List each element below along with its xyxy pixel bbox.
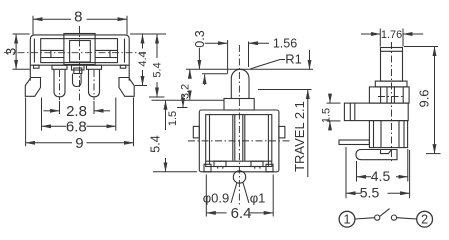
dim 6.4 ext right [272,175,274,217]
right pin base [87,65,102,69]
foot notch [381,150,392,154]
R1 leader [251,60,286,69]
svg-text:5.4: 5.4 [152,62,164,77]
body outline [30,35,129,81]
dim 3 line [15,34,17,69]
right pin centerline [93,70,95,100]
svg-text:3: 3 [3,47,19,55]
svg-text:1: 1 [344,213,351,227]
plunger shaft [381,48,403,82]
dim 9 ext left [25,98,27,147]
dim 5.5 ext right [409,150,411,198]
dim 2.8 ext right [93,101,95,114]
cover tick right [109,50,111,57]
wire left [355,218,375,219]
dim 3.2 line top [189,69,191,74]
svg-text:5.5: 5.5 [360,185,380,201]
base plate [339,140,369,145]
right nub [279,126,285,137]
svg-text:6.4: 6.4 [231,205,252,222]
shaft right wall [243,115,245,161]
horizontal centerline [4,52,148,54]
left pin base [52,65,67,69]
left end step [34,65,40,68]
dim 8 line [33,18,127,20]
body bottom line [30,64,129,66]
vertical centerline [238,45,240,205]
plunger [231,69,249,98]
travel arrow top [309,50,311,69]
horizontal centerline [188,140,292,142]
svg-text:R1: R1 [285,51,302,66]
dim 1.5 right arrow top [329,94,331,103]
dim 5.4 mid line bottom [165,158,167,172]
body inner wall right [124,39,126,63]
collar [375,81,407,87]
dim 9.6 line [434,47,436,154]
bottom boss circle [233,171,245,183]
svg-text:2: 2 [421,213,428,227]
center stem block [74,68,82,74]
left bottom foot [204,164,211,172]
dim 1.56 ext [248,42,250,68]
dim 6.8 ext right [115,98,117,131]
dim 5.4 mid bottom ext [153,171,197,173]
dim 9.6 bottom ext [426,153,441,155]
dim 4.4/5.4 top ext [130,33,166,35]
right end step [120,65,126,68]
svg-text:6.8: 6.8 [66,119,87,136]
leader phi1 [243,182,249,203]
dim 1.5 mid ext [177,107,188,109]
dim 4.5 ext left [356,161,358,182]
dim 4.4 bottom ext [135,85,147,87]
short center dash [378,96,405,98]
dim 5.4 line bottom [156,82,158,97]
dim 2.8 arrow left [44,110,60,112]
dim 5.4 bottom ext [149,96,165,98]
dim 6.8 line [42,125,116,127]
collar [224,99,254,111]
inner wall right [267,115,269,167]
dim 2.8 arrow right [94,110,110,112]
right contact [251,161,263,166]
dim 9 line [26,142,134,144]
dim 0.3 up arrow [204,75,206,86]
svg-text:5.4: 5.4 [149,135,163,152]
dim 8 ext left [32,16,34,35]
right pin tube [89,69,100,97]
ribbed block [369,87,409,103]
dim 4.4 line top [142,34,144,49]
dim 1.76 ext left [379,29,381,47]
dim 2.8 ext left [59,101,61,114]
contact left [375,215,380,220]
left pin centerline [59,70,61,100]
svg-text:8: 8 [74,9,82,26]
center pin tube [73,74,82,87]
lower body lines [374,121,405,148]
svg-text:1.5: 1.5 [167,111,179,126]
switch lever [380,209,390,217]
travel arrow bottom [307,90,309,178]
dim 4.5 ext right [407,149,409,182]
pressed level ext line [202,73,227,75]
dim 1.5 right arrow bottom [329,121,331,130]
leader phi0.9 [231,182,237,203]
body inner wall left [33,39,35,63]
svg-text:4.4: 4.4 [137,51,149,66]
metal cover rect [41,39,118,63]
svg-text:4.5: 4.5 [371,168,391,184]
dim 3.2 line bottom [189,91,191,100]
dim 1.5 right ext bottom [327,120,341,122]
body outer [199,110,279,172]
cover tick left [50,50,52,57]
svg-text:φ1: φ1 [250,191,266,206]
center pin base [72,65,85,70]
svg-text:TRAVEL 2.1: TRAVEL 2.1 [292,101,307,172]
left pin tube [54,69,65,97]
contact strip line [206,160,272,162]
dim 5.4 line top [156,34,158,58]
dim 0.3 down arrow [198,48,200,69]
terminal 2 circle [417,211,433,227]
right contact marks [255,167,260,169]
dim 1.5 right ext top [327,102,341,104]
dim 1.5 mid arrow top [182,94,184,108]
vertical centerline [391,42,393,163]
rib lines [381,87,404,103]
dim 1.76 arrow right [403,33,423,35]
button outer square [64,34,95,65]
cover inner lines [41,50,118,57]
dim 4.5 line [357,176,408,178]
collar top ext line [152,99,225,101]
dim 5.5 line [346,192,410,194]
button inner square [70,41,91,63]
right bottom foot [266,164,273,172]
left contact marks [218,167,223,169]
svg-text:9: 9 [75,135,83,152]
dim 1.76 arrow left [361,33,380,35]
left contact [214,161,226,166]
dim 4.4 line bottom [142,70,144,86]
arm end lines [350,103,355,121]
body inner [206,115,272,167]
dim 5.5 ext left [345,147,347,198]
dim 9 ext right [133,98,135,147]
travel ext line [258,89,312,91]
svg-text:1.56: 1.56 [273,37,297,51]
dim 6.4 ext left [205,175,207,217]
dim 8 ext right [126,16,128,35]
svg-text:3.2: 3.2 [180,84,192,99]
left foot [25,78,40,97]
wire right [397,218,417,219]
dim 1.56 arrow [249,42,270,44]
shaft top line [381,50,403,52]
dome top ext line [186,68,313,70]
lower body [369,121,407,148]
vertical centerline [79,26,81,101]
svg-text:1.5: 1.5 [321,108,333,123]
dim 0.3 ext [227,40,229,74]
contact right [391,215,396,220]
dim 9.6 top ext [404,46,438,48]
J foot [356,150,397,160]
arm band [344,103,408,121]
svg-text:1.76: 1.76 [381,29,402,41]
dim 6.4 line [206,212,273,214]
left nub [193,126,199,137]
shaft left wall [233,115,235,161]
right foot [119,78,134,97]
terminal 1 circle [339,211,355,227]
svg-text:0.3: 0.3 [193,30,207,47]
dim 1.76 ext right [402,29,404,47]
svg-text:9.6: 9.6 [416,89,431,107]
dim 3 ext bottom [13,68,30,70]
dim 6.8 ext left [41,98,43,131]
dim 3 ext top [13,33,30,35]
dim 5.4 mid line top [165,100,167,130]
inner wall left [209,115,211,165]
dim 0.3 arrow [205,42,228,44]
